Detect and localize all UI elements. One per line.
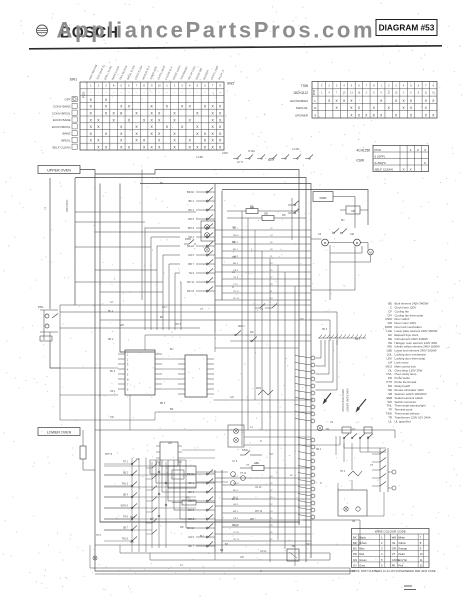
svg-text:OR 1: OR 1 — [110, 391, 116, 393]
svg-text:Grn/Yel: Grn/Yel — [398, 558, 407, 562]
svg-text:TR 2: TR 2 — [340, 471, 346, 473]
Bosch logo — [37, 25, 48, 36]
svg-text:WH: WH — [250, 207, 254, 210]
wire bottom loop1 — [95, 544, 360, 546]
lower transformer loop — [338, 480, 367, 516]
svg-text:BR 10: BR 10 — [187, 191, 195, 194]
svg-text:VT: VT — [392, 552, 396, 556]
svg-text:SEB 4: SEB 4 — [238, 326, 245, 328]
svg-text:Orange: Orange — [398, 547, 407, 551]
wire cluster h253 — [330, 246, 362, 253]
wire bottom loop4 — [90, 568, 350, 574]
timer switch table SW1 grid — [80, 82, 224, 150]
svg-text:LM: LM — [352, 521, 355, 523]
wire left riser x75 — [74, 178, 76, 305]
wire lower bus y430 — [95, 429, 311, 431]
svg-text:TP 9: TP 9 — [96, 535, 102, 537]
svg-text:BR 4: BR 4 — [233, 263, 239, 265]
svg-text:WH 8: WH 8 — [188, 509, 195, 512]
svg-text:LDL: LDL — [168, 443, 173, 445]
svg-text:0 (OFF): 0 (OFF) — [375, 154, 386, 158]
svg-text:SW2: SW2 — [227, 82, 234, 86]
svg-text:4CH1256: 4CH1256 — [357, 149, 371, 153]
svg-text:BU: BU — [341, 219, 345, 222]
wire lr drop — [367, 492, 384, 516]
wire top loop D — [222, 190, 368, 226]
svg-text:GE: GE — [264, 212, 268, 216]
svg-text:GY: GY — [352, 428, 356, 431]
lower control box complex — [168, 466, 245, 488]
svg-text:OR 3: OR 3 — [188, 518, 194, 521]
svg-text:SE 3: SE 3 — [130, 517, 136, 519]
svg-text:MANUAL: MANUAL — [296, 106, 308, 110]
wire lower mid h458 — [182, 457, 215, 459]
svg-text:VT 9: VT 9 — [233, 284, 238, 286]
wire lower h445 — [244, 444, 340, 446]
svg-text:TP 6: TP 6 — [123, 516, 129, 519]
connector block CB1 — [118, 350, 162, 395]
clean relay CR — [340, 206, 368, 214]
svg-text:OR: OR — [110, 416, 114, 419]
component legend list — [385, 302, 440, 424]
svg-text:N: N — [260, 440, 262, 443]
svg-text:BK 12: BK 12 — [187, 527, 194, 530]
grill element GE — [227, 212, 306, 221]
contact mid a — [235, 331, 241, 336]
lower chain terminal labels — [187, 473, 195, 548]
svg-text:RD 18: RD 18 — [232, 525, 239, 527]
wire top bus A — [95, 170, 299, 526]
svg-text:12: 12 — [420, 563, 423, 567]
svg-text:BR 5: BR 5 — [160, 403, 166, 405]
svg-text:POS: POS — [82, 92, 86, 98]
wire mid h y412 — [155, 411, 313, 413]
svg-text:WH 4: WH 4 — [233, 483, 239, 485]
svg-text:LOWER OVEN: LOWER OVEN — [47, 431, 72, 435]
oven lamp OVL3 — [205, 247, 210, 252]
svg-text:UL approved: UL approved — [395, 419, 412, 423]
switch contact S1 — [288, 201, 299, 206]
svg-text:WH: WH — [250, 518, 254, 521]
svg-text:YE 9: YE 9 — [189, 272, 195, 275]
wire lower mid h450 — [182, 449, 215, 451]
lower oven lamp OL — [317, 425, 330, 431]
aux cross links — [104, 475, 196, 519]
wire mid riser x242 — [241, 211, 243, 446]
UPPER OVEN label — [38, 166, 80, 174]
svg-text:BR 7: BR 7 — [188, 263, 194, 266]
zigzag switch A — [258, 390, 273, 395]
wire mid h y368 — [60, 367, 118, 369]
annotation arrow 2 — [356, 399, 367, 413]
svg-text:PK 13: PK 13 — [233, 298, 240, 300]
svg-text:YE: YE — [136, 458, 140, 461]
svg-text:BK 2: BK 2 — [189, 200, 195, 203]
svg-text:VT: VT — [370, 464, 374, 467]
svg-text:WH 16: WH 16 — [255, 511, 263, 513]
heater resistor RH — [80, 430, 95, 470]
harness nested drops — [316, 340, 338, 390]
svg-text:X: X — [314, 114, 316, 118]
svg-text:PTH: PTH — [38, 305, 43, 309]
wire bottom riser x150 — [149, 553, 151, 560]
svg-text:BU 7: BU 7 — [233, 249, 239, 251]
svg-text:YE 10: YE 10 — [255, 487, 262, 489]
svg-text:Green: Green — [359, 558, 367, 562]
lower terminal strip — [298, 438, 315, 519]
svg-text:BROIL: BROIL — [61, 139, 70, 143]
wire mid riser x278 — [277, 265, 279, 540]
svg-text:POS: POS — [312, 89, 316, 95]
svg-text:GN 5: GN 5 — [188, 536, 194, 539]
lower selector contacts — [340, 434, 386, 453]
svg-text:PR 6: PR 6 — [322, 329, 328, 331]
svg-text:N: N — [232, 286, 234, 289]
svg-text:UPPER OVEN: UPPER OVEN — [47, 169, 71, 173]
wire cb links — [162, 359, 178, 389]
clean switch table CSW labels — [357, 149, 371, 163]
wiring harness hatch — [318, 335, 366, 339]
svg-text:Grey: Grey — [359, 563, 365, 567]
door switch DSW lower — [240, 449, 262, 455]
bus component box 2 — [364, 427, 372, 433]
svg-text:GN 7: GN 7 — [162, 307, 168, 309]
wire lower stair bus — [150, 459, 186, 461]
svg-text:BR 6: BR 6 — [268, 158, 274, 162]
ntc resistor — [172, 498, 215, 506]
svg-text:SE 4: SE 4 — [123, 494, 129, 497]
wire mid bus3 — [100, 320, 330, 341]
buzzer transformer box — [287, 544, 299, 561]
wire bottom bus y520 — [100, 521, 300, 523]
svg-text:YE: YE — [260, 308, 264, 311]
upper oven timer contact stack — [196, 184, 222, 333]
svg-text:BK: BK — [160, 182, 164, 185]
svg-text:CF: CF — [318, 233, 322, 236]
switch contact S2 — [288, 209, 299, 214]
svg-text:BK 2: BK 2 — [189, 482, 195, 485]
svg-text:X: X — [424, 161, 426, 165]
svg-text:BU: BU — [170, 348, 174, 351]
svg-text:18CH1112: 18CH1112 — [293, 91, 308, 95]
svg-text:RD: RD — [282, 214, 286, 217]
wire lower h437 — [244, 436, 311, 438]
svg-text:BK: BK — [160, 316, 164, 319]
wire mid riser x248 — [247, 218, 249, 430]
aux circles — [158, 471, 167, 517]
svg-text:GN: GN — [130, 541, 134, 544]
svg-text:ECONOMIES: ECONOMIES — [290, 99, 308, 103]
svg-text:RD 2: RD 2 — [108, 339, 114, 341]
svg-text:BR: BR — [353, 541, 357, 545]
svg-text:GN: GN — [232, 226, 236, 229]
wire mid h y348 — [215, 347, 299, 349]
svg-text:RD: RD — [180, 526, 184, 529]
svg-text:YE 11: YE 11 — [233, 291, 240, 293]
lower lamp pair — [228, 425, 244, 447]
svg-text:SB 7: SB 7 — [123, 527, 129, 530]
wire left riser x50 — [49, 178, 51, 309]
upper oven wiring fan — [215, 228, 311, 300]
svg-text:VT: VT — [200, 308, 204, 311]
wire lower bus y430r — [311, 430, 395, 438]
wire bottom riser x90 — [89, 545, 91, 568]
svg-text:WH 3: WH 3 — [175, 324, 181, 326]
wire chain bottom tie2 — [221, 552, 223, 553]
wire mid riser x145 — [144, 335, 146, 350]
wire cluster riser x292 — [291, 198, 293, 240]
svg-text:X: X — [410, 167, 412, 171]
lower oven wiring fan — [215, 476, 311, 541]
oven lamp OVL1 — [201, 221, 215, 241]
svg-text:0+500°F: 0+500°F — [375, 161, 387, 165]
svg-text:THL 3: THL 3 — [122, 483, 129, 486]
svg-text:240V: 240V — [222, 151, 228, 155]
svg-text:YE: YE — [330, 421, 334, 424]
svg-text:WH: WH — [120, 324, 124, 327]
aux relay block — [156, 442, 182, 466]
upper chain left feed staircase — [75, 212, 201, 330]
wire mid riser x255 — [254, 230, 256, 400]
wire mid h y395 — [60, 394, 118, 396]
svg-text:BU 9: BU 9 — [110, 371, 116, 373]
svg-text:NOTE: PART NUMBERS 10-14-115 S: NOTE: PART NUMBERS 10-14-115 SUPERSEDED … — [352, 569, 436, 573]
svg-text:AppliancePartsPros.com: AppliancePartsPros.com — [57, 18, 376, 43]
wire mid riser x215b — [214, 332, 216, 352]
svg-text:WH 3: WH 3 — [233, 235, 239, 237]
wire left riser x50 lower — [50, 342, 60, 368]
svg-text:X: X — [403, 167, 405, 171]
svg-text:Blue: Blue — [359, 547, 365, 551]
cluster vertical drops — [336, 436, 368, 470]
lower oven timer contact stack — [196, 470, 222, 553]
wire bottom riser x120 — [119, 545, 121, 553]
oven lamp OVL2 — [205, 233, 210, 238]
svg-text:BR 3: BR 3 — [233, 511, 239, 513]
wire mid riser x295 — [294, 286, 296, 566]
svg-text:RB 1: RB 1 — [355, 339, 361, 341]
svg-text:VT: VT — [246, 464, 250, 467]
wire mid riser x262 — [261, 251, 263, 430]
svg-text:BK 14: BK 14 — [232, 499, 239, 501]
svg-text:WTH 6: WTH 6 — [105, 454, 113, 456]
motor feed contacts — [333, 229, 347, 234]
svg-text:YE 12: YE 12 — [233, 539, 240, 541]
wire mid h y420 — [60, 412, 155, 420]
svg-text:GY: GY — [110, 301, 114, 304]
svg-text:CONV BAKE: CONV BAKE — [53, 105, 71, 109]
svg-text:Red: Red — [359, 552, 364, 556]
svg-text:RD 6: RD 6 — [188, 218, 194, 221]
svg-text:CONV BROIL: CONV BROIL — [52, 111, 71, 115]
svg-text:YE: YE — [392, 541, 396, 545]
svg-text:GN 1: GN 1 — [233, 504, 239, 506]
cooling fan motor CF — [311, 233, 339, 246]
svg-text:BK: BK — [353, 535, 357, 539]
svg-text:DSW: DSW — [242, 449, 248, 452]
svg-text:POS: POS — [375, 148, 381, 152]
wire chain bottom tie — [214, 552, 216, 560]
svg-text:GY: GY — [353, 563, 357, 567]
oven selector table TSW grid — [312, 82, 437, 119]
svg-text:CFI: CFI — [300, 319, 304, 321]
wire cluster v330 — [329, 245, 331, 300]
svg-text:Brown: Brown — [359, 541, 367, 545]
svg-text:PK: PK — [392, 563, 396, 567]
svg-text:OR: OR — [240, 556, 244, 559]
wire mid h y400 — [214, 399, 313, 401]
svg-text:OL: OL — [326, 427, 330, 431]
wire mid bus1 — [60, 304, 311, 306]
oven selector table TSW labels — [290, 84, 308, 118]
svg-text:RD 6: RD 6 — [233, 490, 239, 492]
wire top bus B — [75, 178, 306, 563]
svg-text:VT 10: VT 10 — [233, 532, 240, 534]
svg-text:BR 7: BR 7 — [188, 545, 194, 548]
wire mid riser x60 — [59, 305, 61, 420]
svg-text:UPOWER: UPOWER — [295, 114, 308, 118]
svg-text:SW1: SW1 — [70, 78, 77, 82]
wire mid riser x285 — [284, 272, 286, 549]
svg-text:OR: OR — [232, 256, 236, 259]
svg-text:OFF: OFF — [65, 98, 71, 102]
convection motor CM — [339, 233, 368, 246]
svg-text:M: M — [324, 241, 327, 245]
svg-text:BK 4: BK 4 — [108, 311, 114, 313]
svg-text:BR: BR — [232, 241, 236, 244]
svg-text:SELF CLEAN: SELF CLEAN — [52, 145, 70, 149]
wire left riser x100 — [100, 184, 300, 523]
wire bottom loop3 — [150, 559, 330, 561]
clean switch table CSW grid — [373, 146, 429, 172]
svg-text:CSW: CSW — [357, 159, 364, 163]
wire top bus C — [140, 184, 311, 559]
svg-text:GY 8: GY 8 — [232, 461, 238, 463]
svg-text:RD: RD — [250, 331, 254, 334]
svg-text:BU: BU — [353, 547, 357, 551]
page mark — [404, 586, 416, 590]
svg-text:UL: UL — [388, 419, 392, 423]
svg-text:RD: RD — [353, 552, 357, 556]
wire color labels — [110, 182, 374, 573]
wire bottom loop0 — [303, 520, 360, 545]
wire mid bus5 — [145, 334, 311, 336]
svg-text:WH 8: WH 8 — [188, 227, 195, 230]
svg-text:RD 6: RD 6 — [188, 500, 194, 503]
svg-text:SB 2: SB 2 — [316, 449, 322, 451]
svg-text:L2 RD: L2 RD — [292, 147, 299, 151]
wire mid bus2 — [60, 312, 337, 345]
svg-text:THL 8: THL 8 — [122, 538, 129, 541]
svg-text:BR 10: BR 10 — [187, 473, 195, 476]
lower auxiliary contact column — [104, 458, 146, 552]
wire riser x142 — [141, 170, 143, 301]
svg-text:LBE: LBE — [254, 461, 259, 465]
svg-text:LOWER OVEN 240V: LOWER OVEN 240V — [347, 388, 350, 412]
svg-text:Black: Black — [359, 535, 366, 539]
svg-text:BU 4: BU 4 — [188, 491, 194, 494]
wire mid riser x270 — [269, 258, 271, 562]
svg-text:N WH: N WH — [248, 149, 255, 153]
upper chain terminal labels — [187, 191, 195, 293]
svg-text:SB 2: SB 2 — [123, 472, 129, 475]
wire mid bus4 — [60, 327, 200, 329]
svg-text:ECON BROIL: ECON BROIL — [52, 125, 71, 129]
svg-text:240V 60Hz: 240V 60Hz — [66, 199, 69, 212]
svg-text:M: M — [356, 241, 359, 245]
timer switch table SW1 labels — [52, 63, 234, 149]
svg-text:WIRE COLOUR CODE: WIRE COLOUR CODE — [375, 530, 406, 534]
svg-text:CM: CM — [350, 233, 354, 236]
svg-text:WH: WH — [392, 535, 397, 539]
svg-text:DIAGRAM #53: DIAGRAM #53 — [379, 23, 435, 33]
wire cluster v355 — [311, 246, 355, 290]
svg-text:TSW: TSW — [301, 84, 308, 88]
relay board terminal strip — [295, 356, 315, 423]
aux cross links 2 — [104, 466, 196, 530]
svg-text:CR: CR — [351, 210, 355, 213]
svg-text:WTH 5: WTH 5 — [121, 505, 129, 508]
svg-text:GN: GN — [353, 558, 357, 562]
wire bottom loop2 — [120, 553, 330, 560]
wire bottom loop5 — [95, 573, 350, 575]
svg-text:N: N — [260, 570, 262, 573]
svg-text:GN 5: GN 5 — [188, 254, 194, 257]
zigzag switch B — [348, 471, 362, 476]
svg-text:BAKE: BAKE — [62, 132, 70, 136]
left riser lamp — [93, 556, 97, 560]
svg-text:BR: BR — [220, 549, 224, 552]
lock motor LM — [330, 243, 373, 263]
DIAGRAM #53 box — [376, 20, 437, 36]
svg-text:DSW: DSW — [185, 238, 191, 241]
svg-text:BR: BR — [170, 408, 174, 411]
contact mid b — [251, 337, 257, 342]
svg-text:ECON BAKE: ECON BAKE — [53, 118, 71, 122]
lower chain left feed staircase — [150, 460, 196, 528]
svg-text:BU 4: BU 4 — [188, 209, 194, 212]
switch pair mid y308 — [255, 304, 277, 309]
door switch DSW upper — [184, 238, 196, 244]
wire left cluster stub — [49, 332, 51, 342]
svg-text:RD 13: RD 13 — [187, 290, 195, 293]
svg-text:VT 12: VT 12 — [240, 473, 247, 475]
connector block CB2 — [178, 355, 214, 397]
header underline — [29, 46, 442, 49]
wire colour code table — [352, 529, 430, 568]
wire mid riser x130 — [129, 395, 131, 430]
wire left riser x95 — [95, 174, 355, 571]
door lock relay DWM — [313, 192, 355, 229]
probe thermostat cluster — [38, 305, 58, 341]
svg-text:Yellow: Yellow — [398, 541, 406, 545]
aux column 2 — [146, 462, 166, 548]
svg-text:GY: GY — [270, 453, 274, 456]
line switch contact row — [233, 155, 313, 160]
svg-text:BU 11: BU 11 — [187, 281, 194, 284]
svg-text:L1 BK: L1 BK — [196, 155, 203, 159]
svg-text:UPPER OVEN 240V: UPPER OVEN 240V — [342, 389, 345, 412]
sprinkle labels 2 — [96, 307, 361, 553]
svg-text:GY 8: GY 8 — [233, 277, 239, 279]
lower heating element LBE — [240, 461, 311, 471]
svg-text:TP 1: TP 1 — [123, 461, 129, 464]
svg-text:GY 8: GY 8 — [237, 160, 243, 164]
svg-text:BU: BU — [200, 535, 204, 538]
svg-text:White: White — [398, 535, 405, 539]
svg-text:BK 2: BK 2 — [233, 476, 239, 478]
wire upper oven feed — [80, 170, 95, 175]
